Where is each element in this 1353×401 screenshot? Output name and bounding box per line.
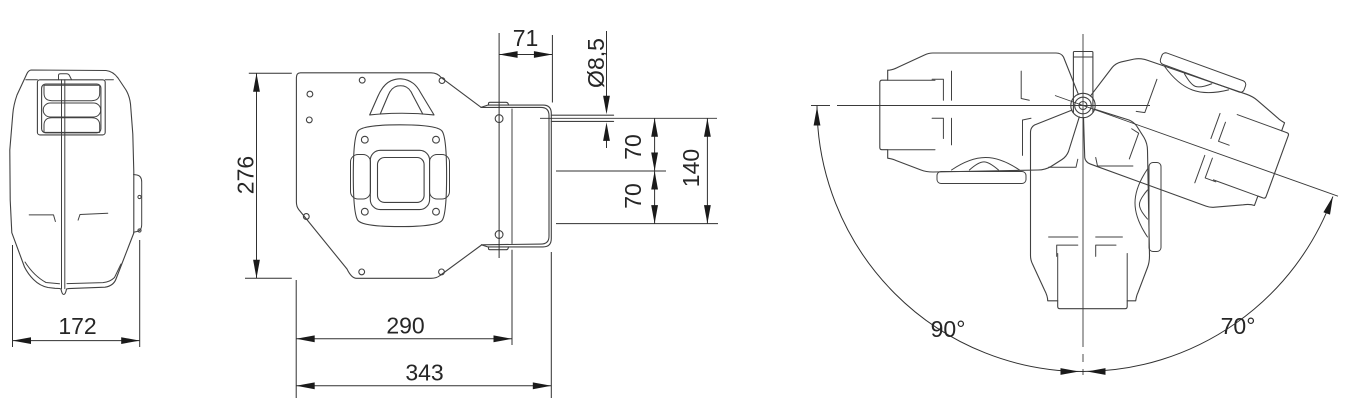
hub left ear — [351, 155, 371, 200]
dimension 172 — [13, 240, 140, 347]
bracket pad middle — [43, 103, 100, 117]
shoulder line left of bracket — [26, 79, 38, 81]
svg-text:276: 276 — [233, 156, 259, 194]
extension line y=171 — [556, 170, 666, 172]
ext line left (plate left) — [295, 280, 297, 398]
vertical centerline — [1082, 34, 1084, 309]
71 arrow right — [534, 51, 553, 58]
dimension 276 — [245, 73, 292, 278]
plate hole left-b — [306, 117, 312, 123]
plate hole top-b — [439, 78, 445, 84]
70 lower dimension line — [654, 171, 656, 224]
mounting bracket bottom tab — [489, 247, 509, 250]
arc arrow bottom left — [1061, 368, 1080, 375]
reel position vertical (center) — [1031, 109, 1162, 309]
70 upper arrow bottom — [651, 153, 658, 172]
vertical centerline dashed bottom — [1082, 309, 1084, 375]
dimensions 70 / 70 / 140 — [556, 118, 718, 223]
172 extension line left — [12, 245, 14, 347]
arc 70 deg — [1083, 197, 1333, 372]
handle arch outer — [370, 79, 434, 115]
mounting bracket outer — [481, 105, 551, 247]
pivot stem — [1073, 52, 1093, 114]
svg-text:70: 70 — [620, 183, 646, 209]
hub right ear — [430, 155, 450, 200]
svg-text:140: 140 — [678, 149, 704, 187]
right side tick — [78, 213, 108, 220]
pivot inner circle — [1079, 102, 1087, 110]
70 lower arrow top — [651, 171, 658, 190]
arc 90 deg — [817, 106, 1083, 372]
70 upper arrow top — [651, 118, 658, 137]
pivot outer circle — [1071, 93, 1095, 117]
pivot middle circle — [1075, 97, 1092, 114]
71 dimension line — [499, 54, 552, 56]
276 extension bottom (plate bottom line continues) — [245, 277, 292, 279]
hub window — [378, 158, 425, 203]
Ø8,5 leader line upper — [606, 31, 608, 96]
140 arrow top — [704, 118, 711, 137]
front plate outline — [296, 73, 481, 278]
top bracket inner — [42, 84, 101, 133]
71 arrow left — [499, 51, 517, 58]
140 arrow bottom — [704, 205, 711, 224]
343 arrow right — [533, 382, 552, 389]
handle arch inner — [380, 86, 423, 114]
290 arrow left — [296, 335, 315, 342]
hub screw a — [361, 136, 368, 143]
hose tube top line — [551, 114, 613, 116]
Ø8,5 leader line lower — [606, 126, 608, 148]
140 dimension line — [706, 118, 708, 223]
mounting bracket top tab — [489, 102, 509, 105]
172 extension line right — [139, 240, 141, 347]
plate hole bottom-b — [439, 269, 445, 275]
dimension 290 / 343 extension lines — [296, 250, 551, 398]
290 dimension line — [296, 338, 512, 340]
svg-text:71: 71 — [513, 25, 539, 51]
svg-text:Ø8,5: Ø8,5 — [583, 38, 609, 88]
arc arrow bottom right — [1087, 368, 1106, 375]
bracket pad bottom — [44, 118, 100, 133]
plate hole top-a — [359, 77, 365, 83]
reel side body outline — [10, 70, 134, 295]
hub screw d — [433, 208, 440, 215]
Ø8,5 arrow up — [603, 122, 610, 140]
bracket hole top — [495, 115, 503, 123]
svg-text:290: 290 — [386, 313, 424, 339]
343 arrow left — [296, 382, 315, 389]
extension line y=223.6 — [556, 223, 718, 225]
reel position horizontal 90 deg — [880, 53, 1080, 184]
ext line 343 right (bracket edge) — [550, 252, 552, 398]
svg-text:343: 343 — [405, 360, 443, 386]
bracket bend line — [511, 109, 513, 244]
stem cap line — [1073, 56, 1093, 58]
hub screw c — [361, 208, 368, 215]
70 upper dimension line — [654, 118, 656, 171]
top bracket outer — [37, 80, 105, 135]
ext line 290 right (bracket bend) — [511, 250, 513, 345]
center seam lines — [62, 80, 65, 289]
plate hole bottom-a — [359, 269, 365, 275]
top tab — [59, 74, 72, 80]
172 arrow left — [13, 337, 32, 344]
276 arrow top — [253, 73, 260, 92]
hub screw b — [433, 136, 440, 143]
bracket pad top — [44, 85, 100, 100]
dimension 71 — [499, 33, 552, 258]
172 arrow right — [121, 337, 140, 344]
276 extension top — [249, 72, 292, 74]
bottom shell inner line left — [25, 262, 60, 284]
343 dimension line — [296, 385, 551, 387]
tube centerline — [540, 117, 717, 119]
172 dimension line — [13, 340, 140, 342]
horizontal centerline — [811, 105, 1150, 107]
bottom shell inner line right — [67, 264, 121, 284]
flange screw top — [138, 195, 141, 198]
svg-text:90°: 90° — [931, 316, 966, 342]
71 extension left (through bracket holes) — [498, 33, 500, 258]
70 lower arrow bottom — [651, 205, 658, 224]
Ø8,5 arrow down — [603, 96, 610, 115]
hose tube bottom line — [551, 120, 613, 122]
arc arrow right end — [1323, 197, 1333, 215]
hub inner square — [370, 150, 429, 209]
plate hole left-a — [307, 91, 313, 97]
arc arrow left end — [814, 107, 821, 126]
276 dimension line — [256, 73, 258, 278]
svg-text:70: 70 — [620, 134, 646, 160]
bracket hole bottom — [495, 231, 503, 239]
left side tick — [29, 215, 55, 222]
flange screw bottom — [138, 229, 141, 232]
svg-text:70°: 70° — [1221, 313, 1256, 339]
reel position tilted 70 deg — [1069, 33, 1301, 224]
276 arrow bottom — [253, 260, 260, 279]
hub outer squircle — [353, 125, 446, 227]
right outlet flange — [134, 175, 142, 233]
290 arrow right — [494, 335, 513, 342]
tilted centerline — [1055, 96, 1338, 197]
svg-text:172: 172 — [58, 313, 96, 339]
71 extension right — [551, 35, 553, 103]
mounting bracket thickness line — [481, 107, 549, 244]
plate hole left-c — [303, 214, 309, 220]
dimension Ø8,5 — [540, 31, 717, 148]
shoulder line right of bracket — [105, 79, 113, 81]
